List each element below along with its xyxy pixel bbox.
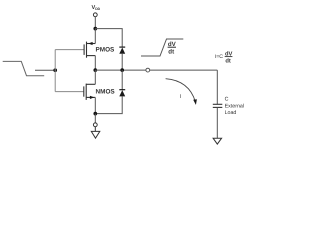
wire: capacitor to load ground <box>216 107 218 138</box>
node: ground junction <box>93 112 97 116</box>
svg-text:C: C <box>225 97 229 103</box>
wire: VDD rail to diode column <box>95 29 122 47</box>
terminal: ground circle <box>93 123 97 127</box>
wire: output corner down to capacitor <box>216 70 218 104</box>
node: output junction at transistors <box>93 68 97 72</box>
svg-text:dt: dt <box>168 48 174 55</box>
waveform symbol dV/dt ramp <box>141 39 183 56</box>
wire: output line right segment <box>150 69 218 71</box>
svg-text:External: External <box>225 103 244 109</box>
node: VDD junction <box>93 27 97 31</box>
capacitor C external load <box>213 104 223 107</box>
svg-text:Load: Load <box>225 110 237 116</box>
svg-text:I: I <box>180 94 182 100</box>
svg-text:VDD: VDD <box>92 5 101 11</box>
wire: PMOS drain to output node <box>94 56 96 71</box>
diode D1 output-to-VDD clamp <box>119 47 125 54</box>
wire: output line left segment <box>95 69 146 71</box>
svg-text:dt: dt <box>225 57 231 64</box>
input signal waveform (falling edge) <box>3 61 45 75</box>
node: gate junction <box>53 68 57 72</box>
node: diode column / output junction <box>120 68 124 72</box>
ground symbol (load) <box>213 138 222 144</box>
wire: NMOS gate lead <box>55 91 84 93</box>
wire: output node to D2 cathode <box>121 70 123 90</box>
ground symbol (supply) <box>91 127 100 139</box>
wire: D2 anode to ground rail <box>95 96 122 113</box>
terminal: output pin circle <box>146 68 150 72</box>
wire: VDD junction to PMOS source <box>94 29 96 44</box>
svg-text:NMOS: NMOS <box>96 89 116 96</box>
wire: NMOS source to ground junction <box>94 97 96 113</box>
transistor NMOS <box>84 84 96 100</box>
transistor PMOS <box>84 42 95 58</box>
diode D2 ground-to-output clamp <box>119 90 125 97</box>
wire: VDD terminal to junction <box>94 17 96 29</box>
svg-text:I=C: I=C <box>215 54 223 60</box>
wire: PMOS gate lead <box>55 49 84 51</box>
wire: ground junction to ground terminal <box>94 114 96 123</box>
svg-text:PMOS: PMOS <box>96 46 116 53</box>
current arrow I <box>166 79 197 105</box>
terminal: VDD circle <box>93 13 97 17</box>
wire: D1 anode to output node <box>121 54 123 70</box>
wire: NMOS drain to output node <box>94 70 96 84</box>
label dV/dt on ramp <box>168 41 177 56</box>
label I=C dV/dt <box>215 50 233 64</box>
wire: input to gate junction <box>35 69 55 71</box>
label C External Load <box>225 97 244 116</box>
wire: gate bus vertical <box>54 50 56 92</box>
